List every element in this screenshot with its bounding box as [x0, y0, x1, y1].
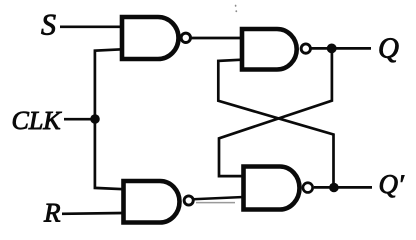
- svg-text:R: R: [43, 197, 61, 227]
- svg-text:Q: Q: [378, 33, 399, 65]
- svg-text:Q′: Q′: [378, 169, 405, 199]
- svg-text:CLK: CLK: [11, 106, 62, 135]
- svg-text:S: S: [41, 8, 56, 41]
